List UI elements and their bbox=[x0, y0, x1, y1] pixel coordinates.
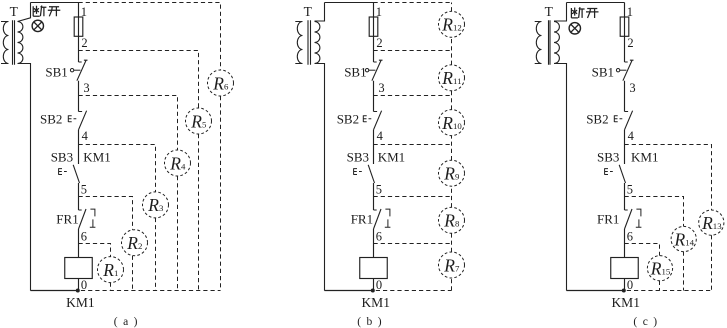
measure wire bottom bus (c) bbox=[627, 290, 712, 292]
wire top rail bbox=[325, 2, 374, 4]
fuse FU bbox=[74, 17, 83, 36]
indicator lamp symbol bbox=[34, 22, 42, 30]
svg-text:SB3: SB3 bbox=[597, 150, 619, 165]
transformer T (c) core bbox=[549, 20, 551, 65]
measure wire R1 to bottom bbox=[110, 283, 112, 291]
resistance point R1 bbox=[98, 257, 124, 283]
svg-text:R7: R7 bbox=[443, 255, 460, 275]
measure wire R6 to bottom bbox=[220, 96, 222, 291]
pushbutton SB3 (NO) bbox=[73, 165, 79, 183]
svg-text:SB1: SB1 bbox=[45, 65, 67, 80]
svg-text:R6: R6 bbox=[212, 73, 229, 93]
contactor coil KM1 bbox=[611, 258, 639, 279]
measure wire node n5 to R2 bbox=[79, 197, 133, 230]
transformer T (b) secondary winding bbox=[315, 22, 320, 64]
measure wire bottom bus (a) bbox=[81, 290, 221, 292]
svg-text:SB1: SB1 bbox=[344, 65, 366, 80]
measure wire node n5 to R14 bbox=[625, 197, 684, 227]
svg-text:6: 6 bbox=[627, 230, 633, 244]
svg-text:R13: R13 bbox=[701, 213, 722, 233]
svg-text:2: 2 bbox=[81, 36, 87, 50]
measure wire R5 to bottom bbox=[198, 134, 200, 291]
wire secondary bottom to left rail bbox=[18, 64, 31, 291]
svg-text:SB2: SB2 bbox=[586, 111, 608, 126]
resistance point R8 bbox=[439, 207, 465, 233]
thermal relay contact FR1 bbox=[79, 209, 87, 229]
svg-text:3: 3 bbox=[629, 81, 635, 95]
svg-text:5: 5 bbox=[627, 183, 633, 197]
annotation duan-kai (broken) bbox=[571, 7, 598, 18]
svg-text:R3: R3 bbox=[147, 195, 164, 215]
svg-text:SB3: SB3 bbox=[51, 150, 73, 165]
svg-text:( b ): ( b ) bbox=[357, 316, 383, 328]
svg-text:R15: R15 bbox=[650, 259, 671, 279]
resistance point R12 bbox=[439, 11, 465, 37]
svg-text:5: 5 bbox=[81, 183, 87, 197]
wire bottom return bbox=[567, 290, 625, 292]
svg-text:3: 3 bbox=[378, 81, 384, 95]
node 0 junction dot bbox=[371, 289, 375, 293]
svg-text:5: 5 bbox=[376, 183, 382, 197]
measure wire row n4 (b) bbox=[374, 144, 452, 146]
wire secondary top to riser bbox=[315, 3, 325, 22]
wire secondary top to riser bbox=[18, 3, 31, 22]
svg-text:0: 0 bbox=[81, 278, 87, 292]
measure wire node n6 to R1 bbox=[79, 244, 111, 257]
svg-text:2: 2 bbox=[627, 36, 633, 50]
resistance point R15 bbox=[647, 256, 672, 281]
measure wire node n4 to R13 bbox=[625, 145, 712, 211]
svg-text:( a ): ( a ) bbox=[114, 316, 139, 328]
resistance point R2 bbox=[122, 230, 148, 256]
transformer T (a) core bbox=[13, 20, 15, 65]
svg-text:R10: R10 bbox=[441, 113, 462, 133]
wire secondary top to riser bbox=[554, 3, 567, 22]
pushbutton SB1 (NC) bbox=[372, 60, 383, 81]
measure wire row top (b) bbox=[374, 2, 452, 4]
fuse FU bbox=[620, 17, 629, 36]
measure wire above R12 bbox=[451, 3, 453, 12]
svg-text:KM1: KM1 bbox=[631, 150, 658, 165]
resistance point R11 bbox=[439, 65, 465, 91]
wire secondary bottom to left rail bbox=[315, 64, 325, 291]
svg-text:1: 1 bbox=[627, 5, 633, 19]
pushbutton SB2 (NO) bbox=[79, 111, 87, 130]
resistance point R13 bbox=[699, 210, 724, 235]
svg-text:0: 0 bbox=[627, 278, 633, 292]
wire top rail bbox=[31, 2, 79, 4]
measure wire node n6 to R15 bbox=[625, 244, 660, 256]
node 0 junction dot bbox=[622, 289, 626, 293]
resistance point R3 bbox=[143, 192, 169, 218]
transformer T (b) core bbox=[308, 20, 311, 65]
svg-text:T: T bbox=[545, 4, 554, 19]
measure wire R15 to bottom bbox=[659, 281, 661, 291]
svg-text:R5: R5 bbox=[190, 111, 207, 131]
transformer T (b) primary winding bbox=[295, 22, 302, 64]
svg-text:0: 0 bbox=[376, 278, 382, 292]
fuse FU bbox=[369, 17, 378, 36]
measure wire below R10 bbox=[451, 136, 453, 161]
wire secondary bottom to left rail bbox=[554, 64, 567, 291]
svg-text:R9: R9 bbox=[443, 164, 460, 184]
svg-text:R11: R11 bbox=[441, 68, 461, 88]
svg-text:KM1: KM1 bbox=[378, 150, 405, 165]
wire bottom return bbox=[31, 290, 79, 292]
pushbutton SB1 (NC) bbox=[77, 60, 88, 81]
svg-text:KM1: KM1 bbox=[611, 295, 640, 310]
svg-text:KM1: KM1 bbox=[361, 295, 390, 310]
transformer T (c) secondary winding bbox=[554, 22, 559, 64]
measure wire node n3 to R4 bbox=[79, 96, 178, 151]
svg-text:1: 1 bbox=[81, 5, 87, 19]
measure wire R13 to bottom bbox=[711, 235, 713, 290]
transformer T (c) primary winding bbox=[535, 22, 542, 64]
svg-text:R1: R1 bbox=[102, 260, 118, 280]
pushbutton SB3 (NO) bbox=[619, 165, 625, 183]
measure wire below R7 bbox=[451, 278, 453, 291]
resistance point R10 bbox=[439, 110, 465, 136]
svg-text:SB1: SB1 bbox=[592, 65, 614, 80]
measure wire node top to R6 bbox=[79, 3, 221, 71]
svg-text:2: 2 bbox=[376, 36, 382, 50]
svg-text:4: 4 bbox=[628, 129, 635, 143]
measure wire below R9 bbox=[451, 186, 453, 207]
measure wire row n5 (b) bbox=[374, 196, 452, 198]
svg-text:SB3: SB3 bbox=[347, 150, 369, 165]
node 0 junction dot bbox=[76, 289, 80, 293]
pushbutton SB2 (NO) bbox=[374, 111, 382, 130]
svg-text:FR1: FR1 bbox=[597, 212, 619, 227]
svg-text:3: 3 bbox=[83, 81, 89, 95]
measure wire bottom bus (b) bbox=[376, 290, 452, 292]
indicator lamp symbol bbox=[571, 24, 579, 32]
measure wire R14 to bottom bbox=[683, 252, 685, 291]
svg-text:( c ): ( c ) bbox=[633, 316, 658, 328]
svg-text:R4: R4 bbox=[169, 153, 186, 173]
svg-text:T: T bbox=[10, 4, 19, 19]
measure wire node n2 to R5 bbox=[79, 51, 199, 109]
svg-text:T: T bbox=[304, 4, 313, 19]
wire main column bbox=[78, 3, 80, 291]
svg-text:SB2: SB2 bbox=[337, 111, 359, 126]
svg-text:4: 4 bbox=[377, 129, 384, 143]
svg-text:FR1: FR1 bbox=[351, 212, 373, 227]
wire main column bbox=[373, 3, 375, 291]
pushbutton SB3 (NO) bbox=[368, 165, 374, 183]
transformer T (a) secondary winding bbox=[18, 22, 23, 64]
measure wire node n4 to R3 bbox=[79, 145, 156, 192]
svg-text:R2: R2 bbox=[126, 233, 142, 253]
resistance point R14 bbox=[671, 226, 696, 251]
wire top rail bbox=[567, 2, 625, 4]
contactor coil KM1 bbox=[65, 258, 93, 279]
measure wire below R11 bbox=[451, 91, 453, 110]
measure wire R2 to bottom bbox=[132, 256, 134, 291]
resistance point R4 bbox=[165, 150, 191, 176]
resistance point R9 bbox=[439, 160, 465, 186]
svg-text:FR1: FR1 bbox=[56, 212, 78, 227]
measure wire row n3 (b) bbox=[374, 95, 452, 97]
thermal relay contact FR1 bbox=[625, 209, 633, 229]
pushbutton SB1 (NC) bbox=[623, 60, 634, 81]
measure wire R3 to bottom bbox=[155, 218, 157, 291]
svg-text:R8: R8 bbox=[443, 211, 460, 231]
svg-text:KM1: KM1 bbox=[66, 295, 95, 310]
thermal relay contact FR1 bbox=[374, 209, 382, 229]
svg-text:R12: R12 bbox=[441, 15, 462, 35]
pushbutton SB2 (NO) bbox=[625, 111, 633, 130]
transformer T (a) primary winding bbox=[1, 22, 9, 64]
resistance point R5 bbox=[186, 108, 212, 134]
measure wire below R8 bbox=[451, 233, 453, 252]
svg-text:6: 6 bbox=[81, 230, 87, 244]
contactor coil KM1 bbox=[360, 258, 388, 279]
measure wire row n6 (b) bbox=[374, 243, 452, 245]
svg-text:SB2: SB2 bbox=[40, 111, 62, 126]
wire main column bbox=[624, 3, 626, 291]
measure wire row n2 (b) bbox=[374, 50, 452, 52]
svg-text:1: 1 bbox=[376, 5, 382, 19]
svg-text:4: 4 bbox=[82, 129, 89, 143]
svg-text:6: 6 bbox=[376, 230, 382, 244]
resistance point R7 bbox=[439, 252, 465, 278]
svg-text:KM1: KM1 bbox=[83, 150, 110, 165]
resistance point R6 bbox=[208, 70, 234, 96]
measure wire R4 to bottom bbox=[177, 176, 179, 291]
annotation duan-kai (broken) bbox=[33, 6, 60, 17]
measure wire below R12 bbox=[451, 37, 453, 65]
wire bottom return bbox=[325, 290, 374, 292]
svg-text:R14: R14 bbox=[674, 229, 695, 249]
